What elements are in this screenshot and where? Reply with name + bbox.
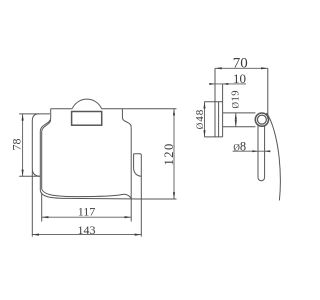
svg-text:117: 117 [78,204,96,218]
svg-text:Ø8: Ø8 [233,140,246,154]
svg-text:Ø19: Ø19 [231,90,242,109]
svg-text:70: 70 [233,56,248,72]
svg-text:10: 10 [233,71,246,86]
svg-text:120: 120 [162,142,176,165]
svg-text:Ø48: Ø48 [194,109,206,130]
svg-text:143: 143 [78,223,96,237]
svg-text:78: 78 [10,139,24,151]
